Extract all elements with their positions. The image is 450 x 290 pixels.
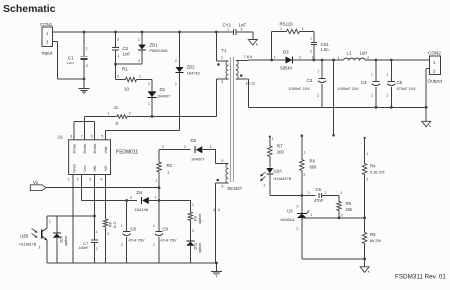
- capacitor CY1: [223, 23, 253, 40]
- svg-text:7: 7: [81, 135, 83, 139]
- svg-text:R8: R8: [346, 201, 352, 206]
- svg-text:2: 2: [310, 50, 312, 54]
- svg-text:1uH: 1uH: [360, 51, 368, 56]
- svg-text:option: option: [64, 236, 68, 246]
- svg-text:200: 200: [277, 150, 285, 155]
- svg-text:2: 2: [367, 56, 369, 60]
- svg-text:1: 1: [96, 230, 98, 234]
- svg-text:1: 1: [280, 27, 282, 31]
- svg-text:2: 2: [317, 94, 319, 98]
- svg-text:2: 2: [192, 229, 194, 233]
- svg-text:2: 2: [77, 178, 79, 182]
- snubber resistor RS110: [272, 22, 314, 61]
- svg-text:1: 1: [366, 152, 368, 156]
- capacitor C5: [387, 59, 416, 109]
- wire output sense drop: [332, 60, 335, 137]
- svg-text:1: 1: [387, 73, 389, 77]
- wire secondary to D3: [248, 59, 285, 62]
- svg-text:CON1: CON1: [40, 22, 53, 27]
- svg-text:3: 3: [297, 205, 299, 209]
- svg-text:1: 1: [312, 56, 314, 60]
- wire primary ground rail: [47, 262, 218, 265]
- svg-text:Vcc: Vcc: [82, 165, 87, 172]
- svg-text:1: 1: [108, 112, 110, 116]
- svg-text:47uF 25V: 47uF 25V: [129, 239, 146, 243]
- svg-text:1: 1: [311, 213, 313, 217]
- ground secondary: [360, 259, 369, 272]
- svg-text:C5: C5: [397, 80, 403, 85]
- wire CON1 pin3 down: [58, 42, 86, 81]
- ground CY1: [248, 40, 257, 46]
- transformer T1 secondary: [236, 54, 255, 107]
- zener ZD5 option: [53, 216, 68, 263]
- optocoupler U2B phototransistor: [19, 216, 51, 263]
- svg-text:47uF 25V: 47uF 25V: [161, 239, 178, 243]
- svg-text:2: 2: [175, 59, 177, 63]
- zener ZD2: [175, 32, 200, 131]
- snubber capacitor CS1: [310, 32, 329, 62]
- svg-text:1: 1: [210, 145, 212, 149]
- wire U1 drain bus: [71, 117, 104, 140]
- svg-text:1.5n: 1.5n: [321, 47, 330, 52]
- svg-text:C9: C9: [163, 227, 169, 232]
- transformer T1 primary: [216, 32, 228, 117]
- svg-text:R1: R1: [122, 67, 128, 72]
- zener ZD1: [114, 32, 168, 66]
- svg-text:KA431A: KA431A: [281, 218, 295, 222]
- svg-text:2: 2: [129, 112, 131, 116]
- svg-text:2: 2: [153, 243, 155, 247]
- svg-text:1: 1: [274, 56, 276, 60]
- wire U1 pin3 Vfb down: [89, 175, 94, 241]
- svg-text:D4: D4: [137, 190, 143, 195]
- capacitor C6: [308, 187, 343, 203]
- svg-text:NC: NC: [103, 165, 108, 171]
- svg-text:47nF: 47nF: [314, 198, 324, 203]
- svg-text:C2: C2: [123, 46, 129, 51]
- svg-text:EE1927: EE1927: [228, 186, 243, 191]
- svg-text:2: 2: [148, 82, 150, 86]
- svg-text:2: 2: [371, 94, 373, 98]
- svg-text:1N4148: 1N4148: [135, 208, 148, 212]
- svg-text:2: 2: [86, 64, 88, 68]
- svg-text:470uF 10V: 470uF 10V: [397, 86, 416, 91]
- svg-text:Input: Input: [42, 51, 53, 57]
- svg-text:2: 2: [184, 145, 186, 149]
- svg-text:1: 1: [155, 196, 157, 200]
- resistor R3 option: [188, 201, 202, 242]
- svg-text:C8: C8: [131, 227, 137, 232]
- svg-text:1: 1: [68, 178, 70, 182]
- svg-text:GND: GND: [72, 164, 77, 173]
- svg-text:1: 1: [156, 179, 158, 183]
- svg-text:1000uF 10V: 1000uF 10V: [289, 86, 311, 91]
- svg-text:Output: Output: [428, 79, 443, 85]
- svg-text:1: 1: [148, 102, 150, 106]
- diode D4: [82, 190, 191, 212]
- resistor R7: [268, 136, 285, 168]
- svg-text:RS110: RS110: [280, 22, 294, 27]
- connector CON2: [425, 51, 443, 122]
- svg-text:1: 1: [272, 137, 274, 141]
- svg-text:1: 1: [49, 220, 51, 224]
- wire output ground rail: [248, 106, 426, 108]
- svg-text:1: 1: [86, 47, 88, 51]
- capacitor C1: [67, 32, 88, 79]
- svg-text:2: 2: [264, 184, 266, 188]
- svg-text:2: 2: [341, 214, 343, 218]
- svg-text:option: option: [198, 243, 202, 253]
- svg-text:ZD5: ZD5: [60, 236, 64, 243]
- svg-text:100nF: 100nF: [79, 246, 89, 250]
- svg-text:C4: C4: [361, 80, 367, 85]
- svg-text:10,12: 10,12: [246, 81, 256, 86]
- diode D2: [159, 138, 216, 162]
- zener ZD3 option: [186, 229, 202, 263]
- svg-text:J1: J1: [114, 105, 119, 110]
- svg-text:H11A817B: H11A817B: [274, 177, 292, 181]
- svg-text:FSDM311 Rev. 01: FSDM311 Rev. 01: [395, 274, 446, 281]
- svg-text:1N4007: 1N4007: [157, 95, 170, 99]
- svg-text:6: 6: [218, 208, 220, 212]
- svg-text:ZD2: ZD2: [187, 65, 196, 70]
- svg-text:Drain: Drain: [92, 144, 97, 154]
- svg-text:S8540: S8540: [280, 66, 293, 71]
- resistor R9: [300, 134, 317, 195]
- svg-text:R2: R2: [167, 163, 173, 168]
- svg-text:D2: D2: [191, 138, 197, 143]
- net flag Vo: [30, 180, 159, 191]
- wire U2A to C6 node: [270, 194, 316, 197]
- capacitor C2: [112, 32, 130, 64]
- svg-text:2: 2: [117, 38, 119, 42]
- svg-text:2: 2: [302, 27, 304, 31]
- svg-text:R7: R7: [277, 144, 283, 149]
- capacitor C3: [289, 60, 327, 107]
- svg-text:option: option: [198, 214, 202, 224]
- svg-text:Drain: Drain: [82, 144, 87, 154]
- wire U1 pin4 down: [100, 175, 105, 220]
- svg-text:4: 4: [100, 178, 102, 182]
- svg-text:1: 1: [338, 56, 340, 60]
- svg-text:2: 2: [96, 247, 98, 251]
- svg-text:2: 2: [162, 145, 164, 149]
- capacitor C9: [153, 224, 177, 263]
- svg-text:2: 2: [39, 246, 41, 250]
- svg-text:T1: T1: [222, 48, 228, 53]
- diode D3: [274, 50, 344, 71]
- svg-text:6: 6: [222, 185, 224, 189]
- svg-text:C1: C1: [68, 56, 74, 61]
- svg-text:1: 1: [227, 28, 229, 32]
- capacitor C8: [121, 201, 145, 264]
- svg-text:D3: D3: [283, 50, 289, 55]
- svg-text:0.2k 2%: 0.2k 2%: [370, 169, 385, 174]
- svg-text:2: 2: [297, 227, 299, 231]
- svg-text:2: 2: [130, 196, 132, 200]
- capacitor C7: [79, 230, 99, 263]
- svg-text:1uF4: 1uF4: [67, 61, 74, 65]
- ground IC section: [211, 263, 222, 277]
- svg-text:1: 1: [304, 151, 306, 155]
- resistor R1: [116, 64, 153, 91]
- svg-text:1: 1: [117, 54, 119, 58]
- resistor R6 N.C.: [103, 219, 117, 263]
- shunt regulator U3 KA431A: [281, 196, 313, 260]
- title: [3, 3, 56, 15]
- inductor L1: [338, 51, 430, 60]
- svg-text:1: 1: [341, 191, 343, 195]
- transformer core: [231, 57, 234, 182]
- svg-text:2: 2: [107, 232, 109, 236]
- wire R2 to D4 node: [158, 172, 160, 231]
- ground output return: [422, 121, 431, 127]
- svg-text:2: 2: [299, 56, 301, 60]
- svg-text:3: 3: [221, 80, 223, 84]
- svg-text:N.C.: N.C.: [113, 220, 117, 228]
- svg-text:1: 1: [221, 56, 223, 60]
- wire U1 pin2 Vcc: [77, 175, 127, 201]
- svg-text:2: 2: [366, 178, 368, 182]
- svg-text:6k 2%: 6k 2%: [370, 238, 382, 243]
- svg-text:R4: R4: [370, 164, 376, 169]
- resistor R2: [156, 145, 173, 189]
- svg-text:Vo: Vo: [33, 180, 39, 185]
- svg-text:3: 3: [89, 178, 91, 182]
- svg-text:8: 8: [71, 135, 73, 139]
- resistor R5: [362, 218, 381, 261]
- footer revision text: [395, 274, 446, 281]
- svg-text:Drain: Drain: [72, 144, 77, 154]
- svg-text:2: 2: [138, 59, 140, 63]
- svg-text:2: 2: [121, 243, 123, 247]
- svg-text:ZD1: ZD1: [150, 43, 159, 48]
- svg-text:4: 4: [213, 208, 215, 212]
- resistor R8: [337, 196, 353, 220]
- svg-text:1: 1: [317, 70, 319, 74]
- svg-text:P6KE100A: P6KE100A: [150, 49, 169, 53]
- svg-text:1: 1: [153, 224, 155, 228]
- svg-text:5: 5: [222, 159, 224, 163]
- svg-text:ZD3: ZD3: [194, 243, 198, 250]
- svg-text:R3: R3: [194, 216, 198, 221]
- svg-text:Schematic: Schematic: [3, 3, 56, 15]
- wire U1 pin1 GND down: [68, 175, 73, 264]
- jumper J1: [85, 105, 217, 126]
- svg-text:Vstr: Vstr: [103, 146, 108, 154]
- ground input: [79, 79, 90, 94]
- svg-text:2: 2: [387, 94, 389, 98]
- svg-text:6: 6: [91, 135, 93, 139]
- svg-text:2: 2: [117, 75, 119, 79]
- optocoupler U2A LED: [260, 168, 291, 196]
- svg-text:D1: D1: [160, 87, 166, 92]
- svg-text:10: 10: [124, 87, 129, 92]
- svg-text:U1: U1: [58, 135, 64, 140]
- transformer T1 auxiliary winding: [213, 150, 243, 263]
- connector CON1: [40, 22, 58, 57]
- svg-text:Vfb: Vfb: [92, 165, 97, 172]
- svg-text:H11A817B: H11A817B: [19, 243, 37, 247]
- wire U3 ref line: [302, 216, 366, 219]
- svg-text:7,8,9: 7,8,9: [244, 54, 253, 59]
- svg-text:5: 5: [102, 135, 104, 139]
- svg-text:U3: U3: [287, 209, 293, 214]
- resistor R4: [362, 137, 384, 218]
- wire U1 Vstr pin5: [105, 131, 179, 140]
- capacitor C4: [338, 59, 381, 109]
- svg-text:1: 1: [121, 224, 123, 228]
- diode D1: [148, 80, 171, 117]
- wire input top rail: [56, 31, 233, 34]
- wire opto collector to Vfb: [47, 215, 96, 218]
- svg-text:1: 1: [310, 37, 312, 41]
- svg-text:1: 1: [138, 38, 140, 42]
- svg-text:1N4762: 1N4762: [187, 72, 200, 76]
- wire U3 anode rail: [302, 258, 365, 260]
- svg-text:FSDM011: FSDM011: [116, 150, 138, 156]
- svg-text:C3: C3: [307, 78, 313, 83]
- svg-text:600: 600: [310, 165, 318, 170]
- svg-text:1: 1: [192, 203, 194, 207]
- svg-text:L1: L1: [347, 51, 352, 56]
- svg-text:U2A: U2A: [274, 169, 282, 174]
- svg-text:1: 1: [371, 73, 373, 77]
- svg-text:1: 1: [139, 75, 141, 79]
- svg-text:R5: R5: [370, 232, 376, 237]
- svg-text:1N4007: 1N4007: [191, 158, 204, 162]
- svg-text:1: 1: [175, 82, 177, 86]
- svg-text:C6: C6: [316, 187, 322, 192]
- svg-text:2: 2: [325, 191, 327, 195]
- svg-text:1nF: 1nF: [123, 52, 131, 57]
- svg-text:1000uF 10V: 1000uF 10V: [338, 86, 360, 91]
- svg-text:R9: R9: [310, 159, 316, 164]
- svg-text:2: 2: [304, 173, 306, 177]
- svg-text:R6: R6: [109, 222, 113, 227]
- svg-text:CON2: CON2: [428, 51, 441, 56]
- IC U1 FSDM011: [58, 135, 139, 175]
- svg-text:22k: 22k: [346, 207, 354, 212]
- svg-text:U2B: U2B: [20, 234, 28, 239]
- svg-text:1: 1: [308, 191, 310, 195]
- svg-text:2: 2: [241, 28, 243, 32]
